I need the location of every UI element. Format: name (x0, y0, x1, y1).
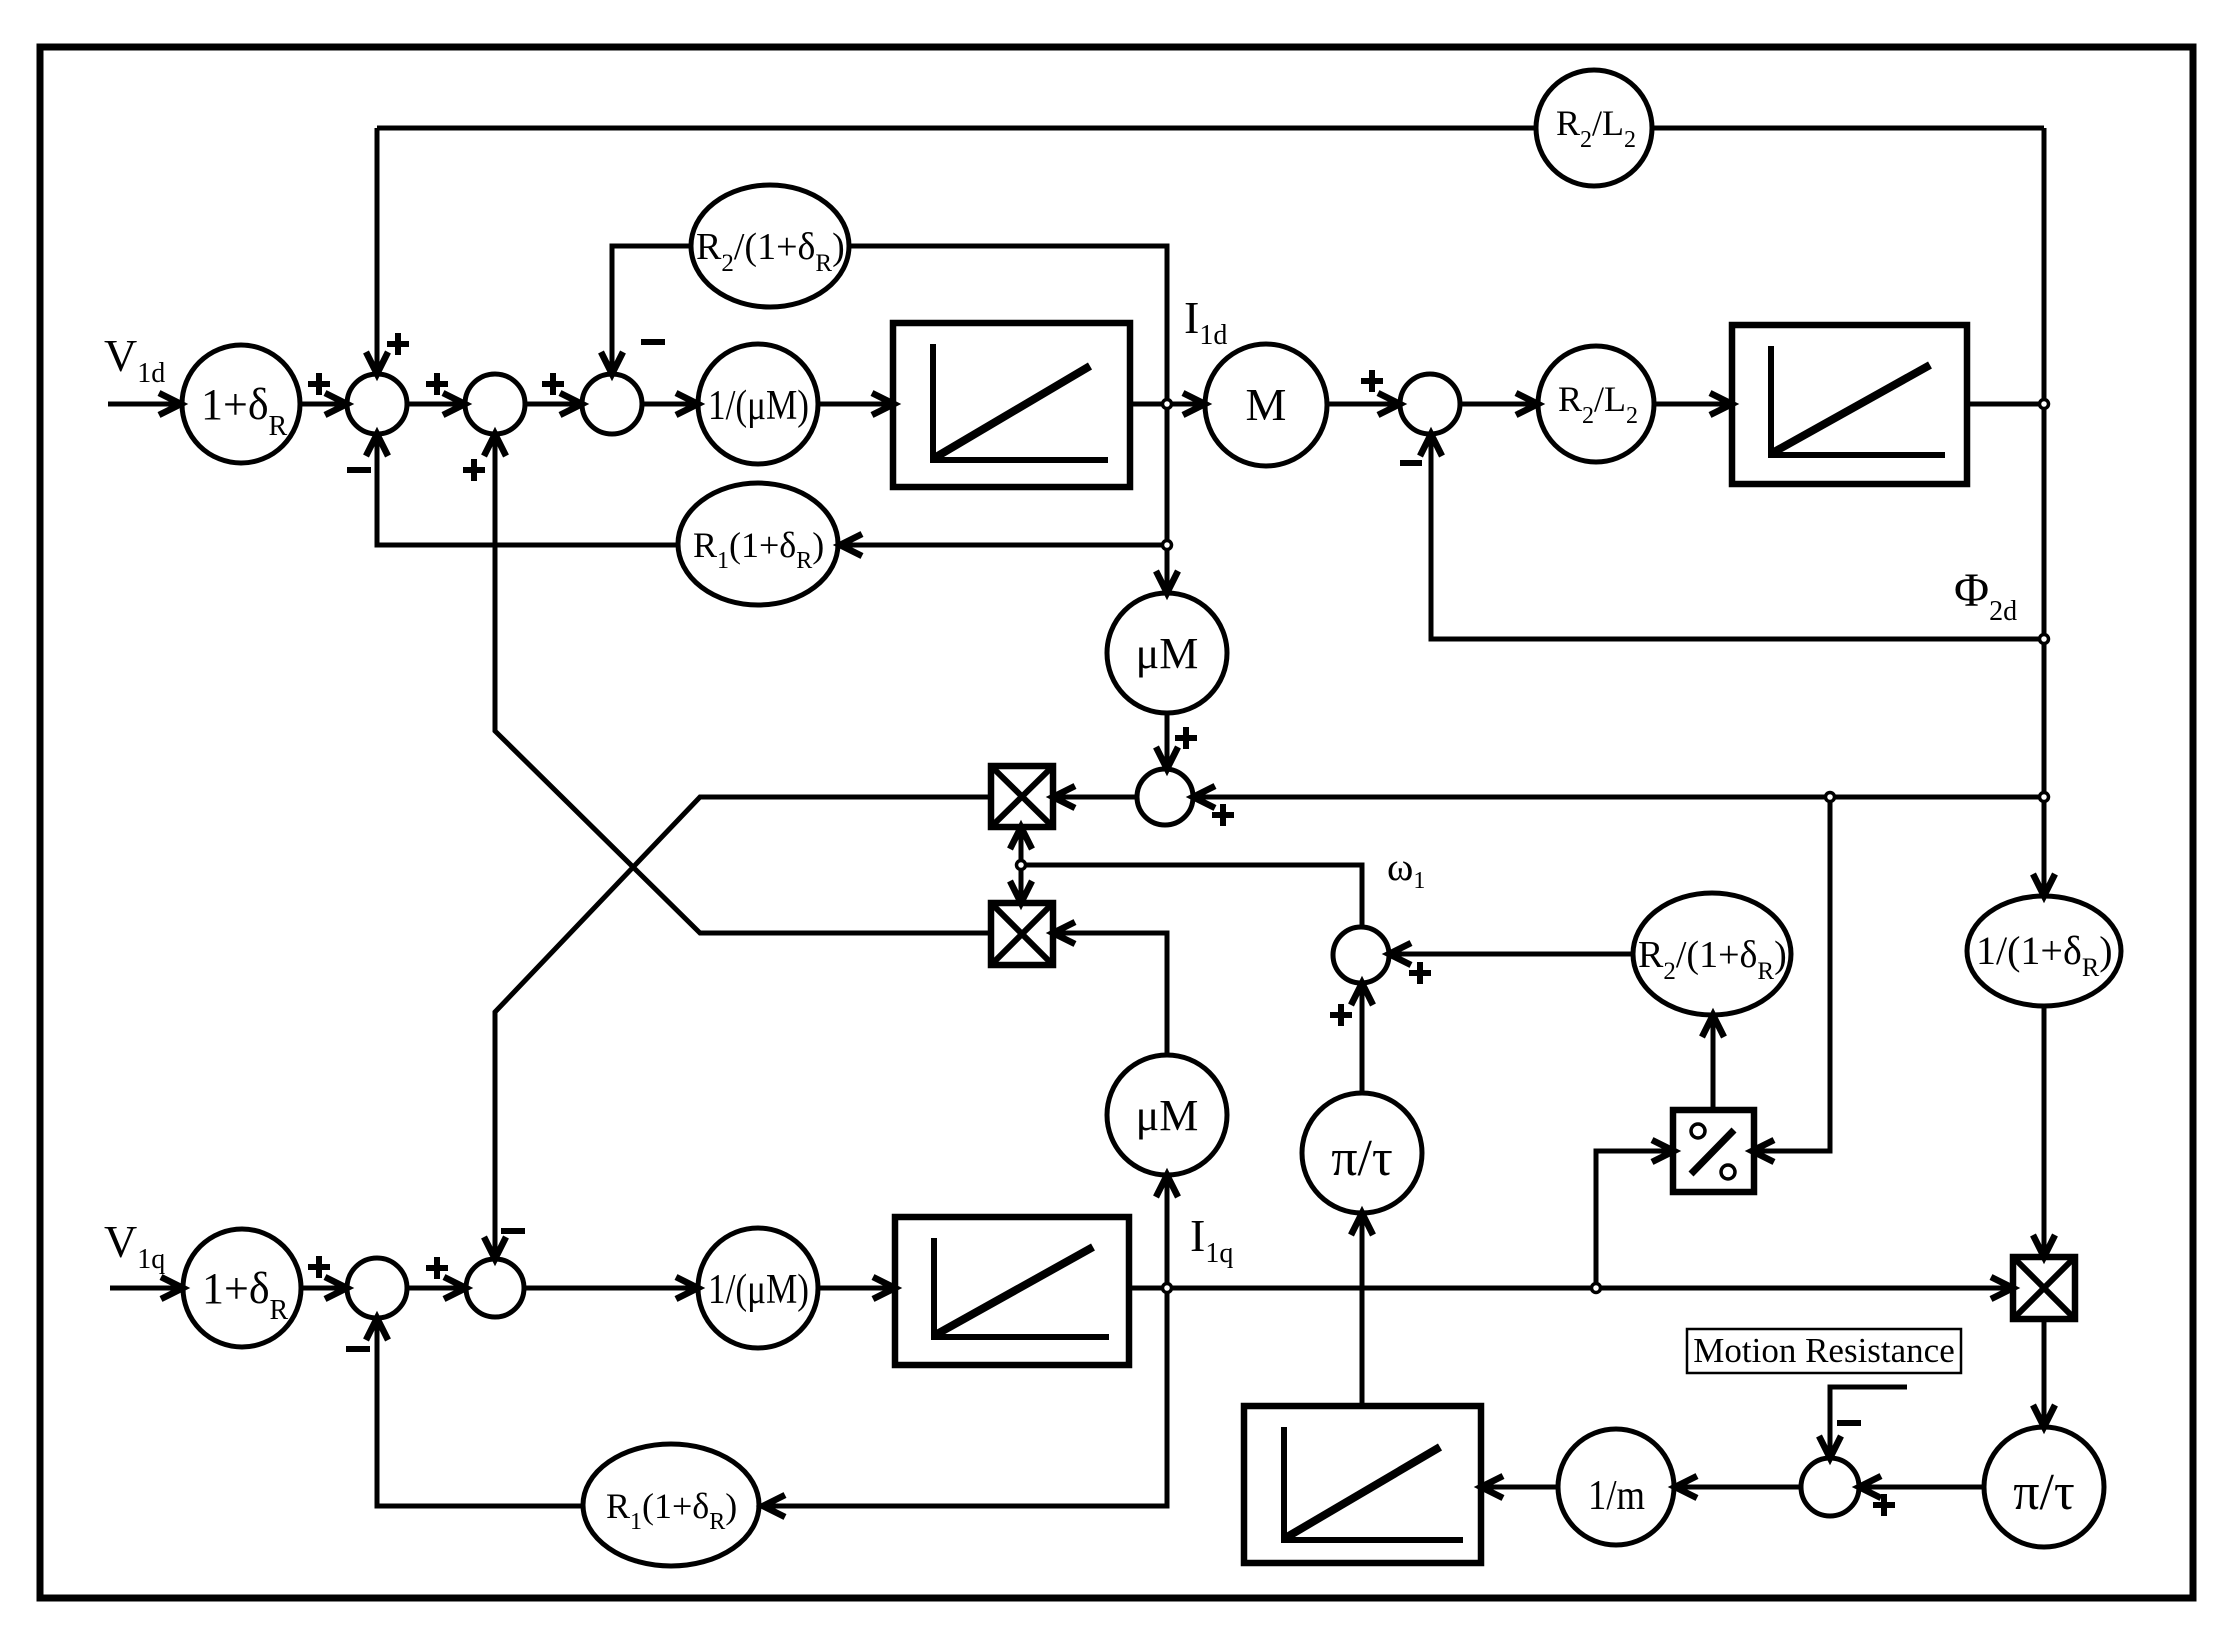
arrowhead into muM-q bottom (1156, 1175, 1178, 1197)
sign plus S1 left (308, 373, 330, 395)
summing junction S2 (465, 374, 525, 434)
gain block R2/L2 (1538, 346, 1654, 462)
sign plus S6 bottom (1330, 1004, 1352, 1026)
wire R2L2 to B2 (1654, 402, 1729, 407)
node N7 (1826, 793, 1835, 802)
arrowhead into S1 top (366, 352, 388, 374)
wire node N7 to divider right input (1755, 797, 1830, 1151)
multiplier cross XB2 (991, 903, 1053, 965)
wire C2q to B3 (818, 1286, 892, 1291)
gain block R2/(1+dR) ellipse (d feedback) (691, 185, 849, 307)
gain block 1/(muM) (q-axis) (698, 1228, 818, 1348)
node N2 (2040, 400, 2049, 409)
wire V1q input (110, 1286, 180, 1291)
wire Phi2d row to S5 (1053, 795, 2044, 800)
gain block M (1205, 344, 1327, 466)
svg-text:Motion Resistance: Motion Resistance (1693, 1331, 1955, 1370)
arrowhead into XB2 top (1010, 881, 1032, 903)
arrowhead into S3 top (601, 352, 623, 374)
wire node I1q down to E5 input (763, 1288, 1167, 1506)
wire Sq1 to Sq2 (407, 1286, 463, 1291)
wire node N5 to E2 input (843, 543, 1167, 548)
sign minus Sq1 bottom (346, 1346, 370, 1352)
svg-text:1/m: 1/m (1588, 1473, 1645, 1519)
sign plus S1 top (387, 333, 409, 355)
integrator B4 (1244, 1406, 1481, 1563)
wire right column vertical (2042, 128, 2047, 893)
wire S2 to S3 (525, 402, 579, 407)
wire S3 to C2d (642, 402, 695, 407)
multiplier XB3 (2013, 1257, 2075, 1319)
node N6 (1017, 861, 1026, 870)
arrowhead into C1d (159, 393, 181, 415)
arrowhead into muM-d (1156, 571, 1178, 593)
sign plus S4 left (1361, 370, 1383, 392)
svg-text:μM: μM (1136, 1091, 1199, 1140)
wire E5 output to Sq1 minus (377, 1321, 583, 1506)
arrowhead into C2q (676, 1277, 698, 1299)
arrowhead into S2 left (443, 393, 465, 415)
arrowhead into E2 (840, 534, 862, 556)
node N5 (1163, 541, 1172, 550)
svg-text:I1q: I1q (1190, 1210, 1233, 1269)
arrowhead into S5 right (1193, 786, 1215, 808)
label box Motion Resistance (1687, 1329, 1961, 1373)
gain block muM (d-axis) (1107, 593, 1227, 713)
summing junction S6 (omega1) (1333, 927, 1389, 983)
wire node I1d down to muM-d and S5 (1165, 404, 1170, 766)
arrowhead into C2d (676, 393, 698, 415)
wire B1 to M via node I1d (1130, 402, 1202, 407)
summing junction S7 (1801, 1458, 1859, 1516)
arrowhead into B1 (872, 393, 894, 415)
arrowhead into divider right (1752, 1140, 1774, 1162)
arrowhead into S3 left (560, 393, 582, 415)
node I1d (1163, 400, 1172, 409)
arrowhead into S5 top (1156, 747, 1178, 769)
arrowhead into Sq2 top (484, 1237, 506, 1259)
integrator glyph B3 (934, 1238, 1109, 1337)
gain block muM (q-axis) (1107, 1055, 1227, 1175)
svg-text:π/τ: π/τ (2013, 1464, 2075, 1521)
gain block 1+dR (d-axis) (182, 345, 300, 463)
arrowhead into E4 top (2033, 874, 2055, 896)
arrowhead into divider left (1652, 1140, 1674, 1162)
arrowhead into pi-tau BR top (2033, 1405, 2055, 1427)
arrowhead into S6 bottom (1351, 983, 1373, 1005)
wire S4 minus from Phi2d line (1431, 437, 2044, 639)
gain block R2/L2 (top feedback) (1536, 70, 1652, 186)
arrowhead into R2L2 (1516, 393, 1538, 415)
wire B3 to XB3 row I1q (1129, 1286, 2010, 1291)
wire XB2 output to S2 plus (495, 437, 991, 933)
sign minus S7 top (1837, 1420, 1861, 1426)
svg-text:1/(μM): 1/(μM) (708, 383, 809, 429)
sign plus S2 bottom (463, 459, 485, 481)
sign plus S2 left (426, 373, 448, 395)
node N9 (1592, 1284, 1601, 1293)
arrowhead into Sq2 left (444, 1277, 466, 1299)
node Phi2d (2040, 635, 2049, 644)
wire C2d to B1 (818, 402, 891, 407)
sign plus S7 right (1873, 1494, 1895, 1516)
arrowhead into S7 top (1819, 1436, 1841, 1458)
integrator glyph B4 (1284, 1427, 1463, 1540)
wire bottom row pi-tau BR to S7 to 1/m to B4 (1481, 1485, 2044, 1490)
arrowhead into 1/m right (1675, 1476, 1697, 1498)
sign plus Sq2 left (426, 1257, 448, 1279)
arrowhead into Sq1 left (325, 1277, 347, 1299)
multiplier XB1 (991, 766, 1053, 827)
divider glyph (1691, 1124, 1735, 1179)
wire V1d input (108, 402, 178, 407)
summing junction S4 (1400, 374, 1460, 434)
integrator B2 (1732, 325, 1967, 484)
node N4 (2040, 793, 2049, 802)
sign plus S5 right (1212, 804, 1234, 826)
arrowhead into M (1183, 393, 1205, 415)
wire M to S4 (1327, 402, 1397, 407)
svg-text:1/(μM): 1/(μM) (708, 1267, 809, 1313)
arrowhead into B4 right (1481, 1476, 1503, 1498)
multiplier XB2 (991, 903, 1053, 965)
svg-text:V1q: V1q (104, 1216, 165, 1275)
arrowhead into B2 (1710, 393, 1732, 415)
svg-text:ω1: ω1 (1387, 844, 1425, 894)
multiplier cross XB1 (991, 766, 1053, 827)
gain block R2/(1+dR) ellipse (slip) (1633, 893, 1791, 1015)
wire S4 to R2L2 (1460, 402, 1535, 407)
svg-text:π/τ: π/τ (1331, 1130, 1393, 1187)
wire B2 to node N2 (1967, 402, 2044, 407)
arrowhead into XB1 right (1053, 786, 1075, 808)
wire C1d to S1 (301, 402, 344, 407)
wire XB1 output to Sq2 minus (495, 797, 991, 1256)
wire top feedback vertical into S1 (375, 128, 380, 377)
wire S1 to S2 (407, 402, 462, 407)
arrowhead into XB2 right (1053, 922, 1075, 944)
wire motion resistance step into S7 (1830, 1387, 1907, 1455)
gain block 1/(muM) (d-axis) (698, 344, 818, 464)
arrowhead into S1 left (325, 393, 347, 415)
summing junction S3 (582, 374, 642, 434)
summing junction Sq1 (347, 1258, 407, 1318)
arrowhead into pi-tau mid bottom (1351, 1213, 1373, 1235)
sign minus Sq2 top (501, 1228, 525, 1234)
wire top feedback horizontal (377, 126, 2044, 131)
svg-text:V1d: V1d (104, 330, 165, 389)
wire Sq2 to C2q (524, 1286, 695, 1291)
wire divider output to E3 (1711, 1018, 1716, 1111)
sign plus S3 left (542, 373, 564, 395)
arrowhead into S7 right (1859, 1476, 1881, 1498)
svg-text:M: M (1246, 379, 1287, 430)
gain block R1(1+dR) ellipse (d feedback) (678, 483, 838, 605)
wire multiplier column between XB1 and XB2 (1019, 827, 1024, 903)
gain block 1/(1+dR) ellipse (1967, 896, 2121, 1006)
svg-text:I1d: I1d (1184, 292, 1227, 351)
arrowhead into S4 bottom (1420, 434, 1442, 456)
sign plus S5 top (1175, 727, 1197, 749)
wire node I1d up to E1 input (849, 246, 1167, 404)
arrowhead into E5 (763, 1495, 785, 1517)
wire S6 output to node N6 (1021, 865, 1362, 927)
integrator B3 (895, 1217, 1129, 1365)
arrowhead into Sq1 bottom (366, 1318, 388, 1340)
arrowhead into S2 bottom (484, 434, 506, 456)
integrator B1 (893, 323, 1130, 487)
wire E2 output to S1 minus (377, 437, 678, 545)
sign minus S4 bottom (1400, 460, 1422, 466)
wire C1q to Sq1 (301, 1286, 344, 1291)
divider block (1673, 1110, 1754, 1192)
wire pi-tau mid column (1360, 986, 1365, 1406)
arrowhead into XB1 bottom (1010, 827, 1032, 849)
gain block 1/m (1558, 1429, 1674, 1545)
wire E3 output to S6 (1392, 952, 1633, 957)
gain block pi/tau (middle) (1302, 1093, 1422, 1213)
sign plus S6 right (1409, 962, 1431, 984)
wire E4 output to XB3 (2042, 1006, 2047, 1254)
summing junction S1 (347, 374, 407, 434)
wire XB3 output to pi-tau BR (2042, 1319, 2047, 1424)
sign minus S3 top (641, 339, 665, 345)
sign plus Sq1 left (308, 1256, 330, 1278)
arrowhead into XB3 left (1991, 1277, 2013, 1299)
node I1q (1163, 1284, 1172, 1293)
wire E1 output to S3 (612, 246, 691, 371)
arrowhead into B3 (873, 1277, 895, 1299)
arrowhead into S6 right (1389, 943, 1411, 965)
gain block pi/tau (bottom right) (1984, 1427, 2104, 1547)
gain block R1(1+dR) ellipse (q feedback) (583, 1444, 759, 1566)
wire node N9 to divider left input (1596, 1151, 1671, 1288)
multiplier cross XB3 (2013, 1257, 2075, 1319)
arrowhead into S1 bottom (366, 434, 388, 456)
integrator glyph B1 (933, 344, 1108, 460)
integrator glyph B2 (1771, 346, 1945, 455)
arrowhead into E3 bottom (1702, 1015, 1724, 1037)
arrowhead into C1q (161, 1277, 183, 1299)
svg-text:μM: μM (1136, 629, 1199, 678)
sign minus S1 bottom (347, 467, 371, 473)
summing junction S5 (1137, 769, 1193, 825)
wire muM-q leg to XB2 (1053, 933, 1167, 1288)
gain block 1+dR (q-axis) (183, 1229, 301, 1347)
svg-text:Φ2d: Φ2d (1954, 564, 2017, 627)
arrowhead into XB3 top (2033, 1235, 2055, 1257)
summing junction Sq2 (466, 1259, 524, 1317)
arrowhead into S4 left (1378, 393, 1400, 415)
